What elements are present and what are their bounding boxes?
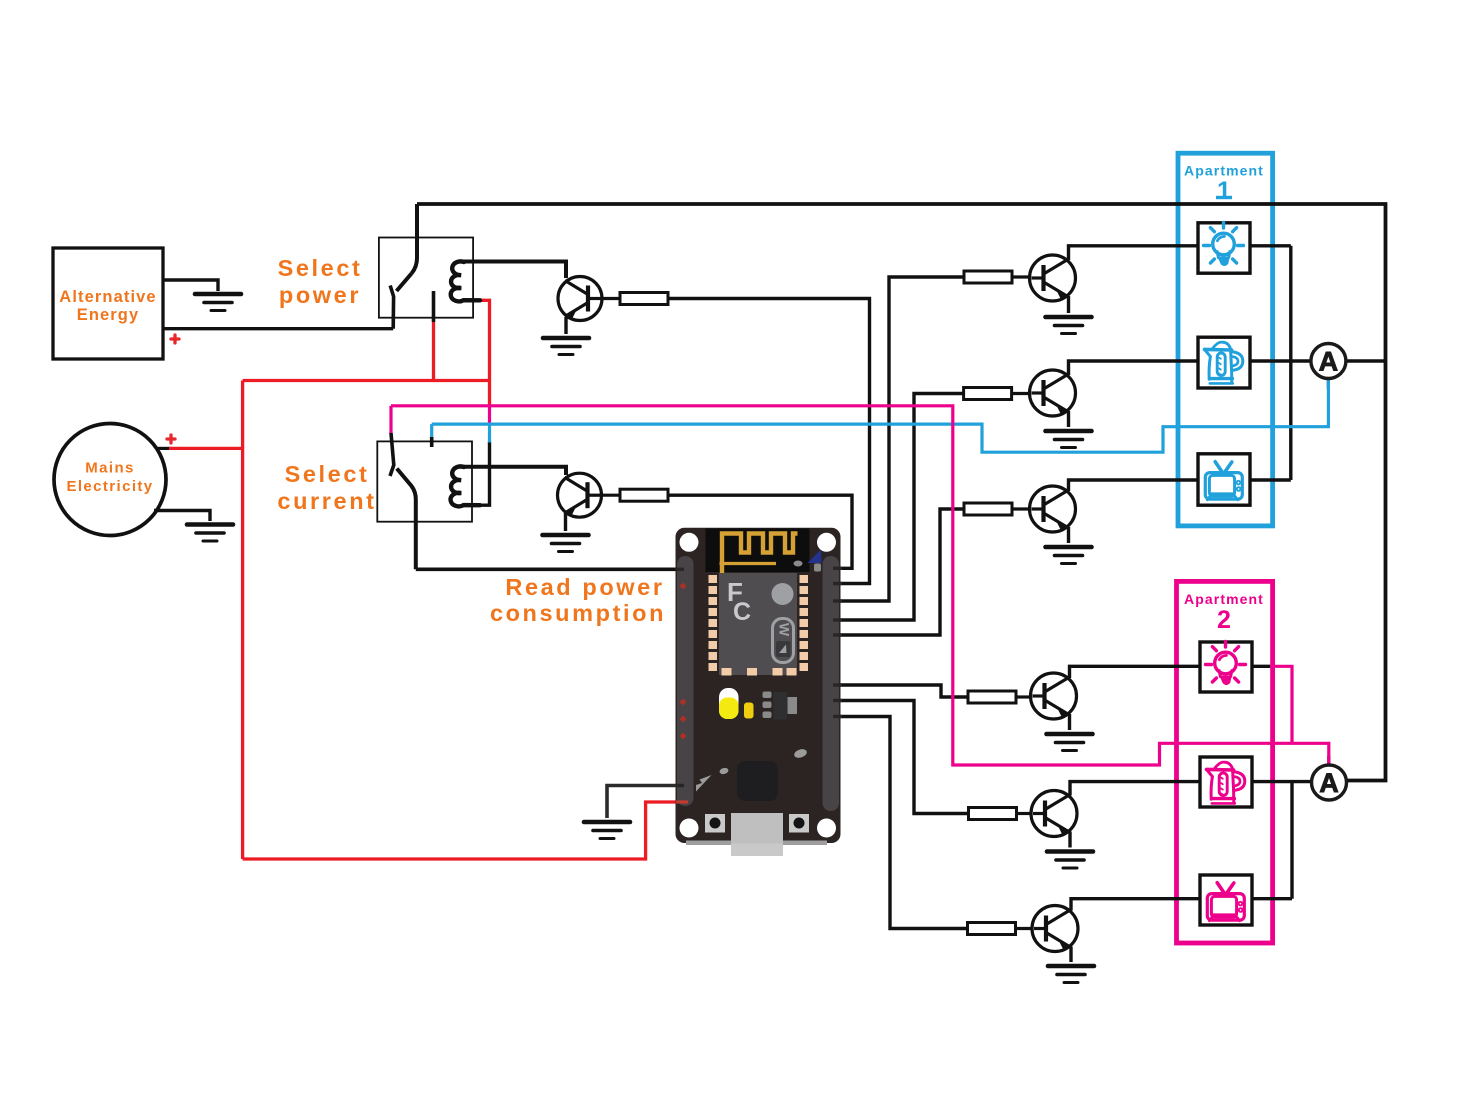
wire Q7 base to resistor R7 [601,297,620,300]
nodemcu esp module left pads [709,575,718,671]
relay K1 coil [451,261,480,301]
resistor R5 [969,808,1017,820]
nodemcu silk arrow mark [696,775,712,792]
nodemcu antenna zone [706,529,810,573]
wire Q6 collector to apartment2 tv [1071,899,1200,911]
svg-text:Select: Select [278,255,363,281]
wire nodemcu RX to R5 [830,701,969,814]
wire R6 to Q6 base [1016,927,1033,930]
resistor R1 [964,271,1012,283]
wire relay K2 arm to nodemcu ADC [416,567,684,571]
wire pink switched mains to apartment 2 [391,406,1329,766]
ground nodemcu [584,822,630,839]
nodemcu mounting holes [680,533,699,552]
icon tv apartment2 [1207,883,1244,921]
wire R8 to nodemcu pin D2 [668,495,852,568]
svg-text:current: current [277,488,376,514]
wire ammeter A2 top stub [1327,756,1330,766]
wire Q1 collector to apartment1 bulb [1069,246,1199,260]
ground Q7 [543,338,589,355]
plus marker mains [167,435,175,443]
wire relay K2 coil bottom riser black part [480,442,490,506]
wire ammeter A1 bottom stub [1327,378,1330,389]
wire Q8 base to resistor R8 [601,494,621,497]
nodemcu right pin rail [823,556,840,811]
wire nodemcu D8 to R4 [830,685,968,697]
wire blue relay K2 NO stub riser [430,424,433,438]
nodemcu silk dot mark [719,767,729,775]
appliance box kettle apartment1 [1198,337,1250,388]
svg-text:Apartment: Apartment [1184,591,1264,607]
ground Q3 [1046,547,1092,564]
icon kettle apartment1 [1205,342,1243,383]
svg-text:Select: Select [285,461,370,487]
nodemcu regulator tab [788,697,798,714]
ground Q5 [1047,852,1093,869]
wire pink relay K2 pole riser [389,406,392,434]
transistor Q1 [1030,255,1076,301]
wire apartment1 inner bus [1250,246,1312,480]
wire red mains feed horizontal [169,447,243,450]
nodemcu yellow LED [719,688,739,719]
wire mains positive stub [157,447,170,450]
svg-text:Electricity: Electricity [66,478,153,495]
svg-text:Energy: Energy [77,306,140,324]
nodemcu antenna feed bar [720,562,777,565]
wire R4 to Q4 base [1016,695,1031,698]
wire red bottom run to nodemcu Vin [243,802,684,859]
svg-text:Alternative: Alternative [59,288,156,306]
nodemcu reset button [789,814,809,833]
resistor R6 [968,923,1016,935]
wire blue segment at coil node [488,424,491,442]
svg-text:C: C [733,598,751,626]
appliance box bulb apartment2 [1200,642,1252,692]
wire Q4 collector to apartment2 bulb [1070,666,1201,678]
nodemcu WiFi badge [773,619,794,663]
wire nodemcu TX to R6 [830,717,969,929]
relay K1 NC contact foot and stub [390,286,393,329]
nodemcu bottom edge shade [686,841,827,846]
wire relay K2 coil top to Q8 collector [460,467,566,475]
wire R1 to Q1 base [1012,275,1030,278]
resistor R2 [964,388,1012,400]
ground Q1 [1046,317,1092,334]
wire Q2 emitter to ground [1067,411,1070,427]
relay K2 coil [451,466,480,506]
transistor Q8 relay2 driver [558,473,602,517]
nodemcu U1 board body [676,528,841,843]
wire R2 to Q2 base [1012,392,1030,395]
wire red stub over rail [676,800,688,803]
nodemcu gray hook mark [814,564,821,572]
resistor R4 [968,691,1016,703]
mains electricity source circle [54,424,166,536]
nodemcu gray oval mark [794,561,803,567]
wire Q2 collector to apartment1 kettle [1069,361,1199,375]
nodemcu pin stubs over rails [676,568,842,785]
nodemcu yellow smd [744,703,754,719]
apartment 2 frame [1177,581,1273,943]
wire apartment2 tv to kettle bus [1252,782,1292,899]
appliance box bulb apartment1 [1198,223,1250,273]
wire Q6 emitter to ground [1069,947,1072,963]
icon kettle apartment2 [1207,762,1245,803]
wire ammeter A1 to return bus [1346,359,1386,362]
svg-text:consumption: consumption [490,600,666,626]
wire red relay K1 coil bottom to pink junction [479,300,490,406]
wire R5 to Q5 base [1017,812,1032,815]
relay K1 switch arm [397,274,412,292]
relay K2 NO contact stub [430,437,434,447]
appliance box tv apartment2 [1200,875,1252,925]
transistor Q4 [1031,673,1077,719]
wire mains negative to ground [154,511,210,522]
nodemcu regulator body [774,692,788,720]
transistor Q7 relay1 driver [558,277,602,321]
wire relay K1 coil top to Q7 collector [460,262,566,279]
wire blue ammeter A1 sense return [432,379,1329,453]
wire Q3 collector to apartment1 tv [1069,480,1199,491]
plus marker alt-energy [171,335,179,343]
nodemcu left pin rail [677,556,694,806]
wire red horizontal to relay coil node [243,379,490,382]
wire alt-energy positive to relay K1 NC contact [163,327,393,330]
svg-text:2: 2 [1217,606,1231,634]
svg-text:Mains: Mains [85,460,135,477]
svg-text:Read power: Read power [505,574,664,600]
ground mains [187,525,233,542]
nodemcu esp module right pads [800,575,809,671]
alternative energy source box [53,248,163,359]
nodemcu silk leaf mark [793,748,808,760]
svg-text:1: 1 [1217,177,1231,205]
icon tv apartment1 [1205,462,1242,500]
transistor Q5 [1031,791,1077,837]
transistor Q2 [1030,370,1076,416]
icon bulb apartment1 [1204,223,1244,266]
relay K2 pole contact foot and stub [390,433,394,476]
wire main return bus top and right [417,204,1386,781]
nodemcu usb connector [731,813,783,844]
nodemcu esp module bottom pads [722,668,797,676]
resistor R7 [620,293,668,305]
nodemcu blue triangle mark [808,550,822,564]
transistor Q3 [1030,486,1076,532]
wire Q7 emitter to ground [564,317,567,334]
ground Q4 [1047,734,1093,751]
wire pink apartment2 bulb to ammeter riser [1270,666,1292,743]
wire Q5 emitter to ground [1068,832,1071,848]
ground Q6 [1048,966,1094,983]
transistor Q6 [1032,906,1078,952]
wire nodemcu D5 to R1 [830,277,964,601]
ground alt-energy [195,294,241,311]
wire Q4 emitter to ground [1068,714,1071,730]
nodemcu regulator pins [763,692,772,699]
wire alt-energy negative to ground [163,280,218,291]
relay K1 select power box [379,238,473,318]
nodemcu antenna trace [722,534,798,576]
wire red relay K1 NO contact drop [432,321,435,381]
apartment 1 frame [1178,153,1273,526]
svg-text:W: W [777,623,793,637]
wire nodemcu GND to ground [607,786,684,819]
ground Q8 [543,535,589,552]
nodemcu esp module [719,573,797,675]
icon bulb apartment2 [1206,642,1246,685]
wire R7 to nodemcu pin D1 [668,299,870,584]
wire Q1 emitter to ground [1067,296,1070,313]
ground Q2 [1046,431,1092,448]
appliance box kettle apartment2 [1200,757,1252,807]
ammeter A2 [1312,765,1347,800]
svg-text:power: power [279,282,361,308]
wire red left vertical bus [241,381,244,860]
resistor R3 [964,503,1012,515]
wire R3 to Q3 base [1012,507,1030,510]
appliance box tv apartment1 [1198,454,1250,505]
relay K2 switch arm [397,469,416,570]
nodemcu pin1 markers [679,582,686,739]
resistor R8 [620,489,668,501]
wire relay K1 common pole riser [412,204,418,274]
wire pink segment at coil node [488,406,491,424]
wire nodemcu D7 to R3 [830,509,964,635]
relay K2 select current box [377,441,472,521]
wire Q5 collector to apartment2 kettle [1070,782,1200,796]
wire Q8 emitter to ground [564,513,567,531]
nodemcu flash button [705,814,725,833]
ammeter A1 [1311,344,1346,379]
wire Q3 emitter to ground [1067,527,1070,543]
nodemcu esp chip shadow square [737,761,778,801]
relay K1 NO contact stub [432,291,436,322]
wire apartment2 kettle to ammeter A2 [1252,780,1312,783]
wire nodemcu D6 to R2 [830,394,964,621]
wire apartment2 bulb stub black [1252,665,1270,668]
nodemcu globe mark [772,583,794,605]
